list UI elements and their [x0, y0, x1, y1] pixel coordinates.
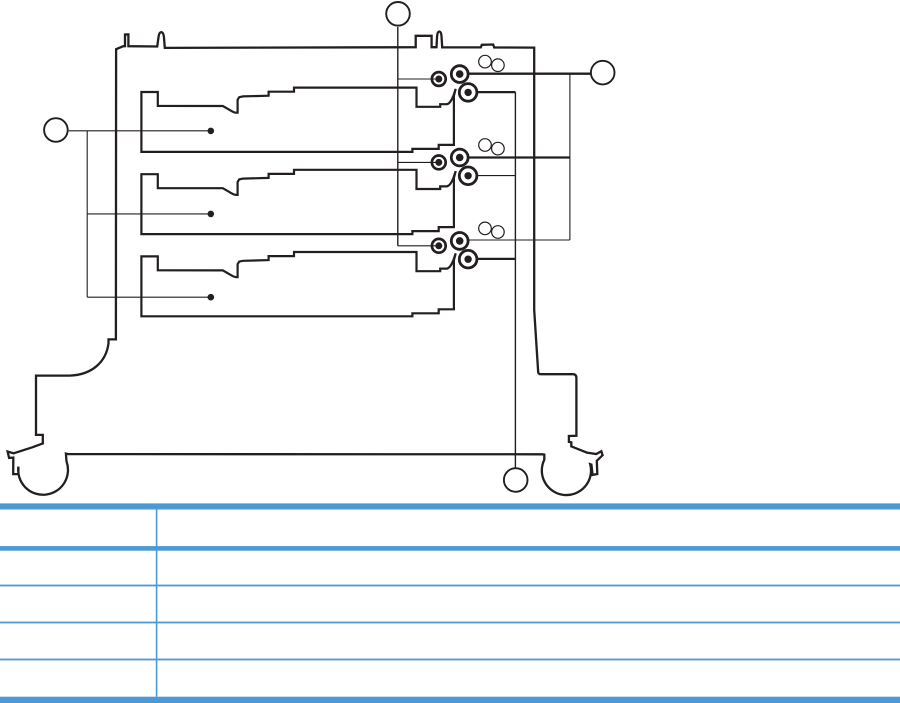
left branch 2 — [87, 213, 211, 215]
sep dot 3 — [464, 256, 471, 263]
feed dot 3 — [456, 237, 464, 245]
table top bar — [0, 503, 900, 509]
long vertical to bottom callout — [514, 92, 516, 468]
tray 3 — [141, 252, 455, 316]
sep dot 2 — [464, 172, 471, 179]
roller group 3 — [432, 222, 504, 268]
tray 1 — [141, 88, 455, 152]
table row line 1 — [0, 585, 900, 587]
feed dot 2 — [456, 154, 464, 162]
feed leader 2 — [469, 156, 570, 158]
callout circle bottom — [504, 468, 528, 492]
left branch vertical — [86, 131, 88, 297]
left leader line — [69, 130, 211, 132]
callout circle top — [386, 2, 410, 26]
feed dot 1 — [456, 70, 464, 78]
pickup leader 1 — [398, 78, 437, 80]
pickup leader 3 — [398, 245, 437, 247]
tray dot 3 — [208, 294, 215, 301]
tray dot 1 — [208, 128, 215, 135]
table row line 3 — [0, 659, 900, 661]
bracket vertical — [569, 74, 571, 240]
roller group 2 — [432, 139, 504, 185]
left branch 3 — [87, 296, 211, 298]
roller group 1 — [432, 55, 504, 101]
feed leader 1 (to right callout) — [469, 73, 591, 75]
table header separator — [0, 546, 900, 551]
pickup dot 2 — [435, 159, 442, 166]
sep leader 2 (thin) — [477, 175, 515, 177]
sep leader 3 — [477, 258, 515, 260]
feed leader 3 (thin) — [469, 239, 570, 241]
leader vertical from top callout — [397, 27, 399, 246]
table bottom bar — [0, 697, 900, 703]
tray dot 2 — [208, 211, 215, 218]
sep dot 1 — [464, 89, 471, 96]
tray 2 — [141, 170, 455, 234]
callout circle left — [44, 118, 68, 142]
pickup dot 3 — [435, 242, 442, 249]
table row line 2 — [0, 622, 900, 624]
callout circle right — [591, 61, 615, 85]
sep leader 1 — [477, 91, 516, 93]
pickup leader 2 — [398, 161, 437, 163]
table column divider — [156, 510, 158, 697]
pickup dot 1 — [435, 76, 442, 83]
cabinet outline — [8, 32, 603, 496]
